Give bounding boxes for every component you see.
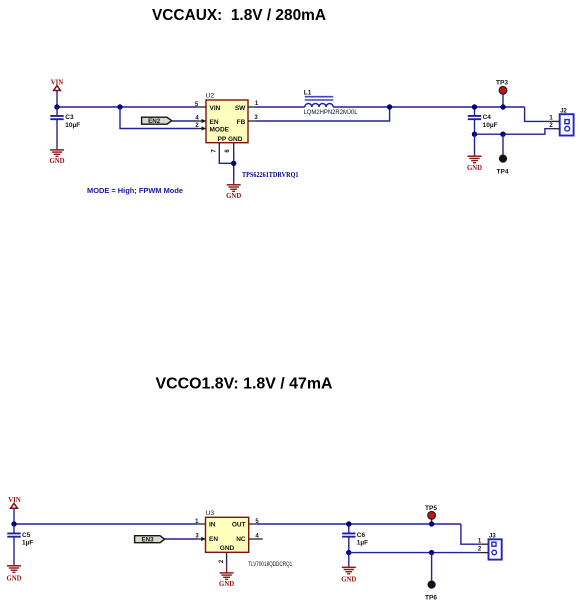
svg-text:L1: L1 — [304, 89, 312, 96]
pin 6 stub U2.GND — [225, 143, 234, 153]
svg-text:NC: NC — [236, 536, 246, 543]
node junction FB tap — [387, 104, 392, 109]
wire EN2 to U2.EN — [172, 120, 198, 122]
svg-text:VCCO1.8V: 1.8V / 47mA: VCCO1.8V: 1.8V / 47mA — [156, 376, 333, 393]
test point TP3 — [496, 79, 508, 107]
svg-text:10µF: 10µF — [483, 122, 498, 129]
node junction TP6 — [429, 550, 434, 555]
wire L1 to output rail — [333, 106, 524, 108]
ground under C3 — [49, 150, 64, 165]
svg-text:IN: IN — [209, 522, 216, 529]
wire FB feedback — [257, 107, 390, 121]
test point TP6 — [425, 553, 437, 602]
node junction C4 top — [472, 104, 477, 109]
svg-text:EN3: EN3 — [141, 537, 154, 544]
wire VIN2 down — [13, 509, 15, 525]
power symbol VIN (top) — [51, 79, 64, 90]
wire rail jog to J2 pin1 — [525, 107, 552, 121]
inductor L1 — [304, 89, 358, 116]
svg-text:C3: C3 — [65, 114, 74, 121]
svg-text:VCCAUX: 1.8V / 280mA: VCCAUX: 1.8V / 280mA — [152, 7, 326, 24]
capacitor C3 — [50, 107, 80, 150]
ground under U3 — [219, 573, 234, 588]
svg-text:GND: GND — [467, 165, 482, 172]
regulator U3 body — [206, 510, 249, 552]
svg-text:C6: C6 — [357, 532, 366, 539]
pin 3 stub U2.FB — [248, 115, 258, 121]
svg-text:OUT: OUT — [232, 522, 246, 529]
node junction PP/GND — [231, 161, 236, 166]
wire C6 to ground — [348, 553, 350, 564]
node junction C4 bottom — [472, 132, 477, 137]
wire low row to J3 pin2 — [349, 552, 481, 554]
op U2 body — [206, 93, 249, 143]
svg-text:TLV70018QDDCRQ1: TLV70018QDDCRQ1 — [248, 561, 292, 568]
capacitor C4 — [468, 107, 498, 134]
node junction C6 bottom — [346, 550, 351, 555]
wire input rail to U3 — [14, 523, 198, 525]
wire U2.SW to L1 — [257, 106, 305, 108]
pin 4 stub U3.NC — [249, 533, 263, 539]
svg-text:1µF: 1µF — [357, 540, 368, 547]
svg-text:LQM2HPN2R2MJ0L: LQM2HPN2R2MJ0L — [304, 109, 358, 116]
svg-text:C4: C4 — [483, 114, 492, 121]
svg-text:EN: EN — [209, 536, 218, 543]
svg-text:MODE = High; FPWM Mode: MODE = High; FPWM Mode — [87, 186, 184, 195]
node junction TP3 — [500, 104, 505, 109]
svg-text:10µF: 10µF — [65, 122, 80, 129]
ground under C5 — [6, 566, 21, 583]
pin 4 stub U2.EN — [195, 116, 206, 124]
wire VIN to node — [56, 91, 58, 107]
wire U2.GND down — [233, 150, 235, 182]
svg-text:GND: GND — [6, 575, 21, 582]
net flag EN2 — [142, 117, 172, 125]
wire U3.GND to ground — [226, 560, 228, 564]
svg-text:GND: GND — [220, 545, 235, 552]
ground under C4 — [467, 156, 482, 172]
pin 5 stub U2.VIN — [195, 102, 206, 108]
svg-text:EN2: EN2 — [148, 118, 161, 125]
pin 1 stub U3.IN — [195, 519, 205, 525]
pin 2 stub U2.MODE — [195, 123, 206, 131]
svg-text:C5: C5 — [22, 532, 31, 539]
node junction TP5 — [429, 521, 434, 526]
svg-text:VIN: VIN — [210, 105, 221, 112]
svg-text:GND: GND — [49, 158, 64, 165]
wire C4 to ground — [474, 134, 476, 153]
svg-text:SW: SW — [235, 105, 246, 112]
test point TP4 — [497, 134, 509, 175]
wire MODE branch — [120, 107, 198, 129]
wire output low row to J2 pin2 — [475, 129, 552, 135]
svg-text:TP4: TP4 — [497, 168, 509, 175]
svg-text:U2: U2 — [206, 93, 215, 100]
capacitor C5 — [7, 524, 33, 566]
capacitor C6 — [342, 524, 368, 553]
node junction at VIN/C3 — [54, 104, 59, 109]
pin 5 stub U3.OUT — [249, 519, 260, 525]
pin 1 stub J2 — [549, 115, 559, 121]
svg-text:GND: GND — [226, 193, 241, 200]
node junction C6 top — [346, 521, 351, 526]
pin 7 stub U2.PP — [212, 143, 220, 153]
pin 1 stub J3 — [478, 538, 489, 544]
svg-text:GND: GND — [341, 577, 356, 584]
connector J2 — [560, 108, 574, 135]
wire rail jog to J3 pin1 — [461, 524, 481, 544]
svg-text:TP6: TP6 — [425, 595, 437, 602]
svg-text:U3: U3 — [206, 510, 215, 517]
ground under U2 — [226, 185, 241, 200]
test point TP5 — [425, 505, 437, 524]
ground under C6 — [341, 567, 356, 583]
wire U2.PP to gnd node — [219, 150, 233, 163]
node junction VIN2/C5 — [11, 521, 16, 526]
svg-text:TP3: TP3 — [496, 79, 508, 86]
pin 2 stub J3 — [478, 547, 489, 553]
svg-text:EN: EN — [210, 119, 219, 126]
pin 1 stub U2.SW — [248, 101, 259, 107]
wire EN3 to U3.EN — [165, 538, 198, 540]
svg-text:GND: GND — [219, 581, 234, 588]
node junction MODE tap — [117, 104, 122, 109]
net flag EN3 — [135, 536, 165, 544]
svg-text:1µF: 1µF — [22, 540, 33, 547]
pin 2 stub J2 — [549, 123, 559, 129]
svg-text:FB: FB — [237, 119, 246, 126]
wire U3.OUT rail — [257, 523, 461, 525]
svg-text:PP GND: PP GND — [218, 136, 243, 143]
svg-text:MODE: MODE — [210, 126, 230, 133]
pin 3 stub U3.EN — [195, 533, 205, 541]
wire main input rail — [57, 106, 198, 108]
svg-text:TPS62261TDRVRQ1: TPS62261TDRVRQ1 — [242, 172, 299, 179]
connector J3 — [489, 534, 502, 560]
pin 2 stub U3.GND — [219, 552, 227, 563]
power symbol VIN (bottom) — [8, 497, 21, 508]
node junction TP4 — [500, 132, 505, 137]
